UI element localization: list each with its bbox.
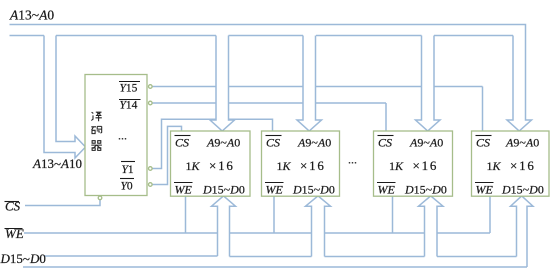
svg-text:Y14: Y14 [120,100,138,112]
svg-text:A13~A10: A13~A10 [32,156,82,171]
svg-text:CS: CS [378,136,392,150]
svg-text:CS: CS [266,136,280,150]
svg-text:Y0: Y0 [121,181,133,193]
svg-text:CS: CS [5,199,21,214]
svg-text:A9~A0: A9~A0 [409,136,443,150]
svg-text:WE: WE [266,183,284,197]
svg-text:D15~D0: D15~D0 [404,183,447,197]
svg-text:1K: 1K [186,159,201,173]
svg-text:WE: WE [378,183,396,197]
svg-text:A9~A0: A9~A0 [206,136,240,150]
svg-text:D15~D0: D15~D0 [202,183,245,197]
svg-text:Y1: Y1 [122,164,134,176]
svg-text:1K: 1K [487,159,502,173]
svg-text:A9~A0: A9~A0 [297,136,331,150]
svg-text:1K: 1K [389,159,404,173]
svg-text:D15~D0: D15~D0 [501,183,544,197]
svg-text:...: ... [118,129,127,143]
svg-text:×16: ×16 [510,158,536,173]
svg-text:×16: ×16 [209,158,235,173]
svg-text:CS: CS [175,136,189,150]
svg-text:Y15: Y15 [120,83,138,95]
svg-text:D15~D0: D15~D0 [0,251,46,266]
svg-text:A13~A0: A13~A0 [9,8,54,23]
svg-text:...: ... [348,153,357,167]
svg-text:WE: WE [476,183,494,197]
svg-text:D15~D0: D15~D0 [292,183,335,197]
svg-text:1K: 1K [277,159,292,173]
svg-text:×16: ×16 [413,158,439,173]
svg-text:×16: ×16 [300,158,326,173]
svg-text:A9~A0: A9~A0 [505,136,539,150]
svg-text:CS: CS [476,136,490,150]
svg-text:WE: WE [175,183,193,197]
